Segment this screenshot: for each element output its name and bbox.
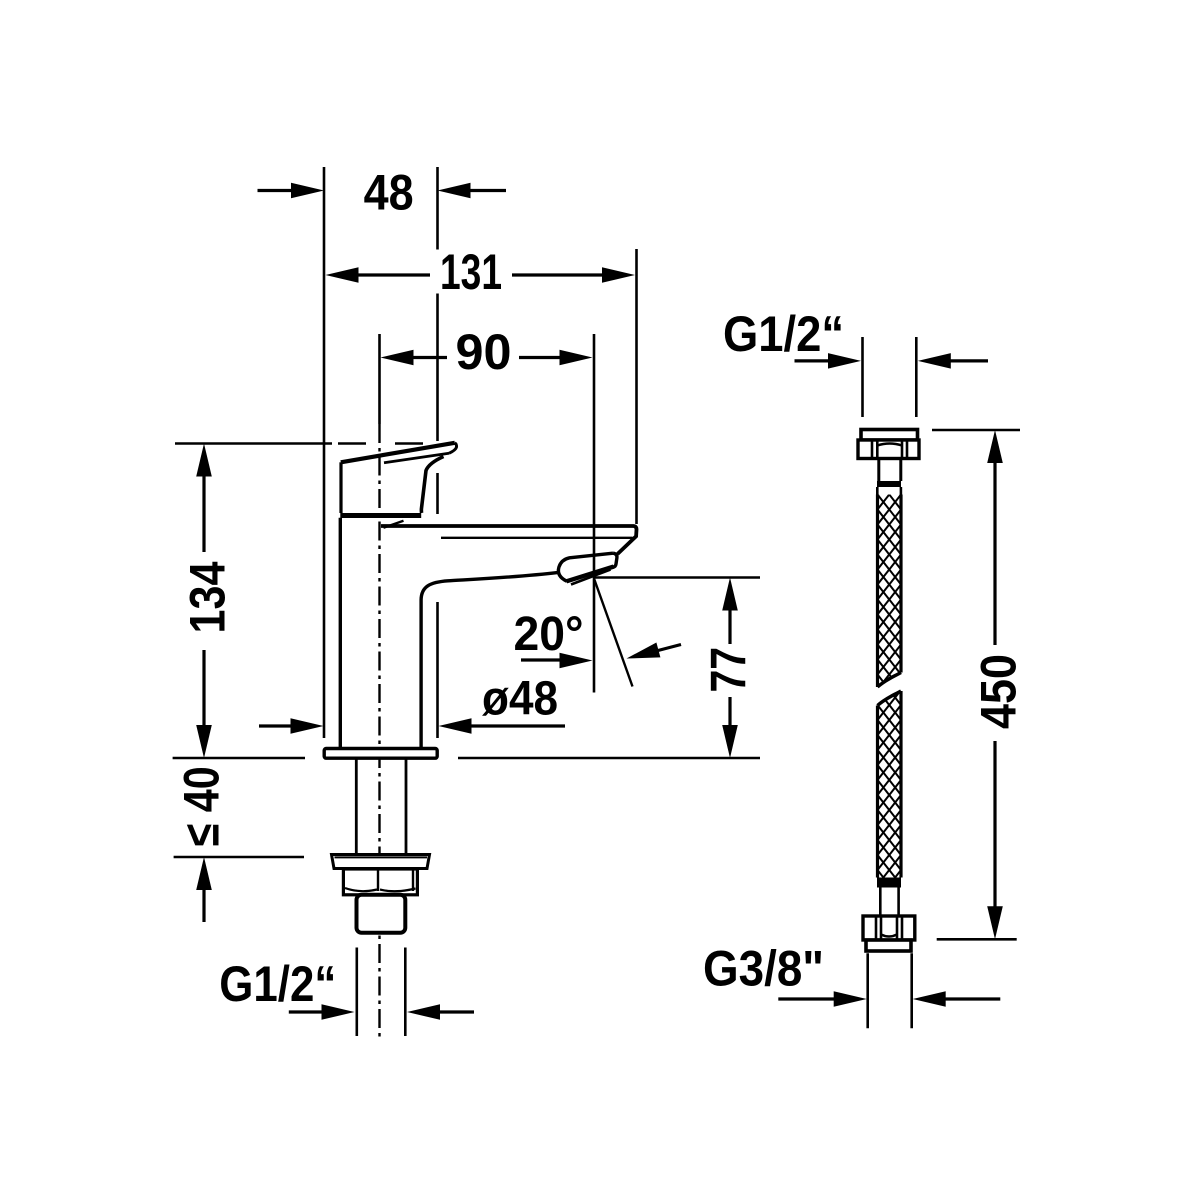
extension line 77 top at spout outlet [595,576,760,579]
G1/2 bottom dimension extension lines [357,948,406,1037]
svg-text:450: 450 [971,654,1027,729]
centre axis dash-dot line of faucet column [378,334,381,1038]
hose braided lower section [878,660,902,930]
shank washer [332,855,430,869]
dimension 77 (outlet height) [701,578,757,759]
svg-text:90: 90 [456,324,512,380]
450 dimension top extension line [932,429,1020,432]
dimension max 40 (mounting depth) [174,766,230,922]
hose top cap nut [861,430,918,441]
extension line right of 48 width [436,167,439,738]
hose top hex nut [858,440,919,459]
svg-text:≤ 40: ≤ 40 [174,766,230,846]
svg-text:20°: 20° [514,608,584,661]
dimension 134 (height) [180,444,236,759]
svg-text:ø48: ø48 [482,673,558,726]
svg-text:131: 131 [440,244,502,300]
dimension 48 (top) [258,165,507,221]
faucet body top inner line [441,537,633,539]
spout mousseur outlet [558,553,617,584]
faucet neck right edge and spout underside [421,572,559,748]
extension line spout outlet (90 dim right) [593,334,596,693]
20 degree slanted reference line [594,579,633,687]
extension line handle top (134 dim top) [175,442,423,445]
G1/2 top dimension extension lines [863,337,917,417]
hose braided upper section [878,465,902,735]
label G1/2 top [723,306,844,362]
dimension 20 degree spout angle [514,608,682,668]
svg-text:48: 48 [364,165,414,221]
svg-text:G1/2“: G1/2“ [219,956,336,1012]
handle collar bar [340,513,421,518]
svg-text:134: 134 [180,561,236,633]
hose top ferrule band [877,481,901,487]
svg-text:G3/8": G3/8" [703,940,824,996]
threaded shank [356,758,406,854]
G3/8 dimension arrows [778,991,1000,1007]
mounting surface line [173,757,760,760]
hose top white band [877,487,901,495]
450 dimension bottom extension line [937,938,1017,941]
faucet handle lever [341,443,457,513]
dimension 450 (hose length) [971,430,1027,939]
hose bottom hex nut [863,916,915,940]
body joint wedge [384,521,404,528]
label G3/8 [703,940,824,996]
dimension diameter 48 (base) [259,673,565,734]
extension line spout front (131 dim right) [635,249,638,524]
hose bottom ferrule band [877,878,901,888]
hose top collar [879,459,901,482]
G1/2 male thread end [357,895,406,933]
G1/2 top dimension arrows [795,353,989,369]
faucet base flange [324,749,437,759]
extension line max 40 bottom [174,856,304,859]
svg-text:G1/2“: G1/2“ [723,306,844,362]
dimension 131 [326,244,636,300]
extension line left (48/131/diam48) [323,167,326,738]
G1/2 bottom dimension arrows [289,1004,474,1020]
label G1/2 bottom [219,956,336,1012]
locknut [343,869,417,895]
dimension 90 [381,324,593,380]
svg-text:77: 77 [701,647,757,693]
G3/8 dimension extension lines [868,953,912,1028]
hose bottom white tube [880,888,898,917]
faucet body top edge [381,526,637,554]
faucet column left edge [339,518,342,749]
hose bottom cap nut [866,940,911,951]
